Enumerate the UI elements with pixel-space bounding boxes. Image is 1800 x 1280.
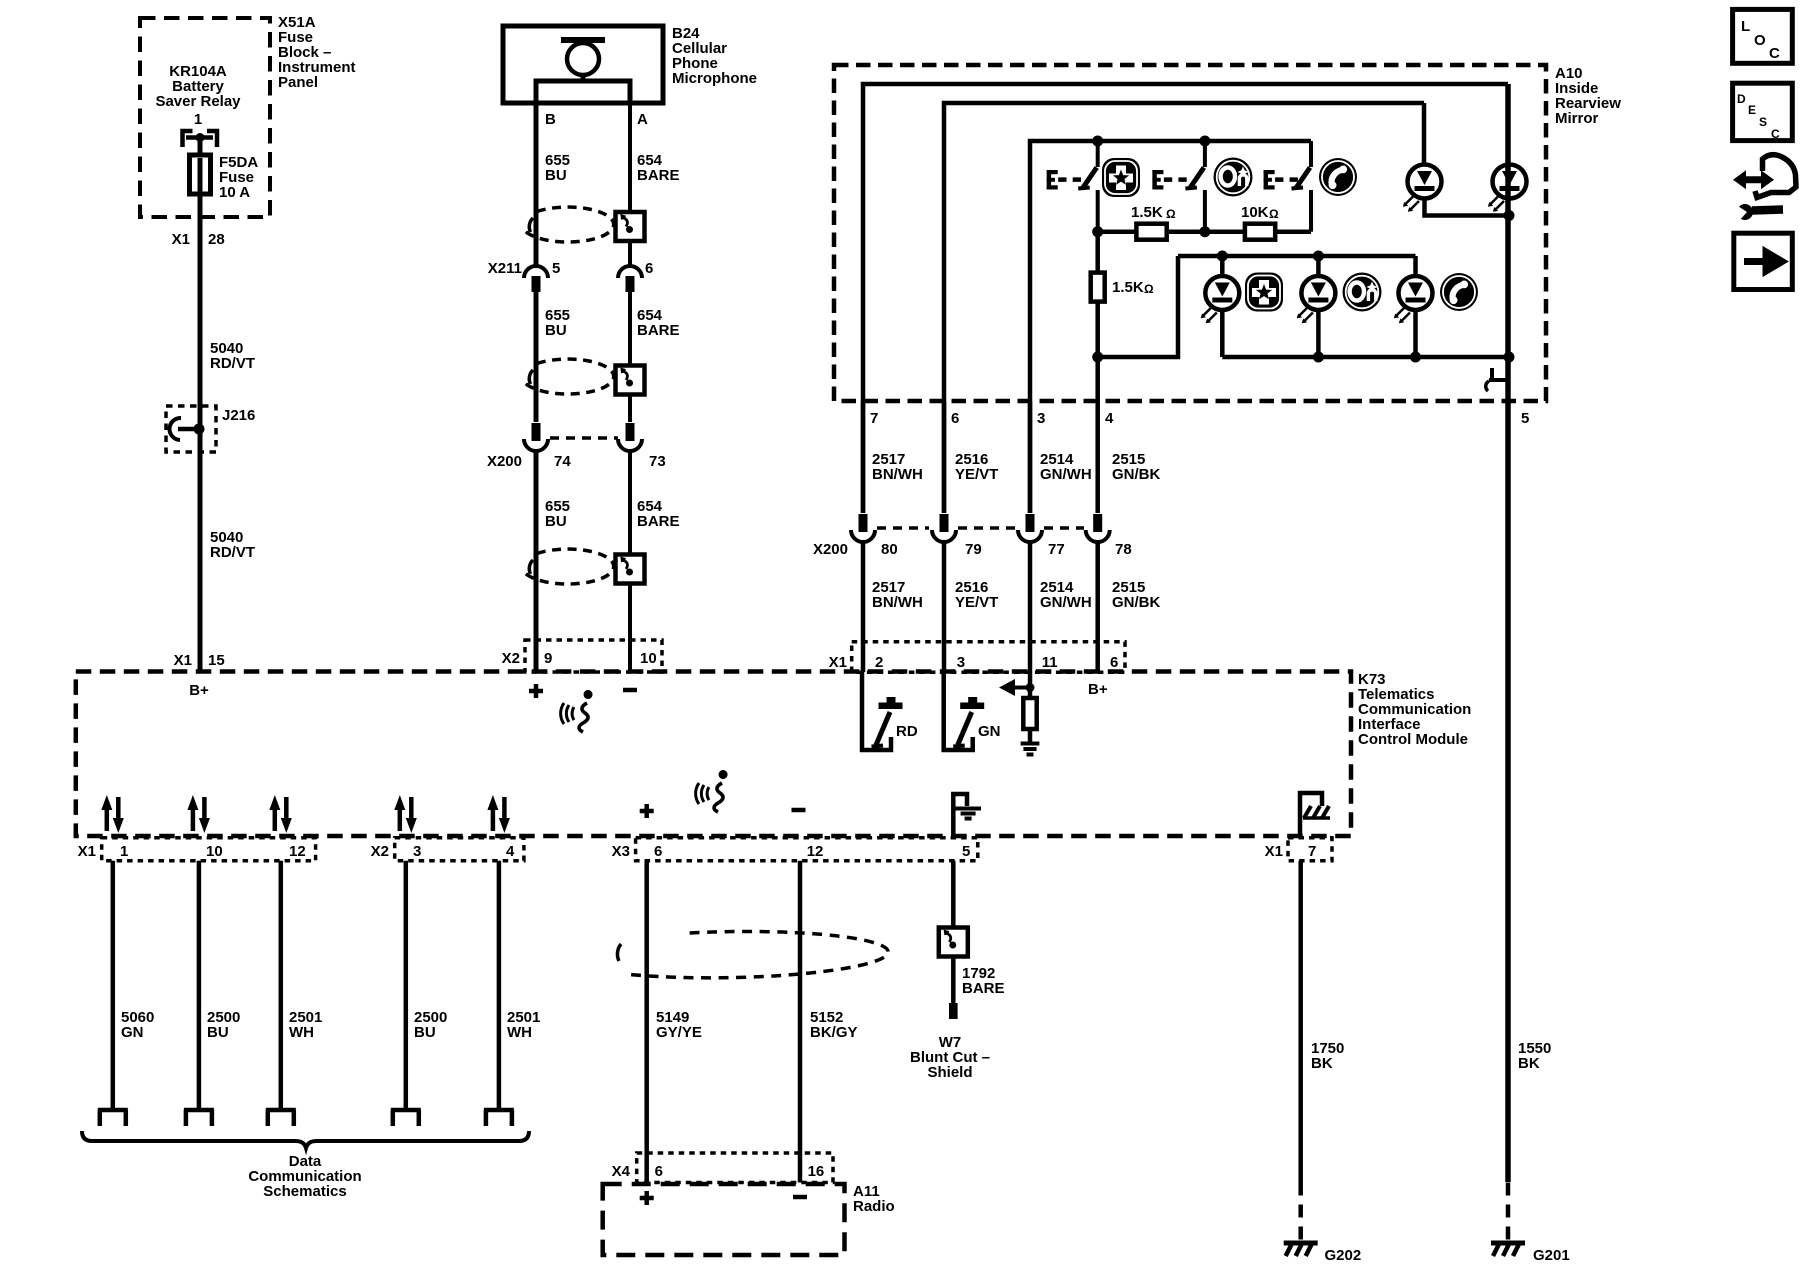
microphone element symbol — [561, 37, 605, 43]
node switch rail junction 1 — [1092, 136, 1103, 147]
node resistor rail junction 2 — [1199, 226, 1210, 237]
svg-text:1: 1 — [194, 111, 202, 128]
switch S1 blade — [1078, 141, 1098, 232]
data arrows pin 12 — [269, 795, 292, 833]
svg-text:10K: 10K — [1241, 204, 1269, 221]
nav icon DESC box — [1733, 83, 1793, 140]
node cathode rail junction 1 — [1313, 352, 1324, 363]
svg-text:YE/VT: YE/VT — [955, 466, 998, 483]
wire 654 BARE seg1 — [628, 103, 632, 266]
svg-text:X1: X1 — [78, 843, 96, 860]
twisted shield ellipse large — [630, 929, 889, 979]
svg-text:Saver Relay: Saver Relay — [155, 93, 241, 110]
ground hook pin 5 — [953, 794, 967, 836]
twisted pair ellipse 3 — [525, 549, 614, 584]
LED mirror upper left — [1403, 165, 1442, 212]
wire LED1 drop — [1220, 256, 1225, 276]
svg-text:G201: G201 — [1533, 1247, 1570, 1264]
switch S2 blade — [1185, 141, 1205, 232]
polarity + speaker — [640, 804, 654, 818]
svg-text:GY/YE: GY/YE — [656, 1024, 702, 1041]
relay KR104A contact — [183, 131, 218, 147]
svg-text:Panel: Panel — [278, 74, 318, 91]
svg-text:16: 16 — [808, 1163, 825, 1180]
svg-text:10: 10 — [206, 843, 223, 860]
svg-text:GN/WH: GN/WH — [1040, 594, 1092, 611]
microphone pictograph K73 X3 — [696, 770, 728, 812]
svg-text:G202: G202 — [1325, 1247, 1362, 1264]
shield termination square 3 — [616, 555, 645, 584]
svg-text:BN/WH: BN/WH — [872, 466, 923, 483]
wire fuse to X1 28 — [198, 192, 203, 671]
svg-text:80: 80 — [881, 541, 898, 558]
svg-text:RD/VT: RD/VT — [210, 355, 255, 372]
svg-text:28: 28 — [208, 231, 225, 248]
wire pin 7 riser and top rail — [863, 84, 1508, 513]
svg-text:2: 2 — [875, 654, 883, 671]
icon OnStar button — [1214, 158, 1253, 197]
svg-text:6: 6 — [951, 410, 959, 427]
connector X200 pin 73 — [618, 423, 642, 451]
indicator lamp GN — [944, 672, 985, 750]
svg-text:X2: X2 — [502, 650, 520, 667]
wire relay to fuse — [198, 140, 203, 156]
terminal pin 12 wire — [266, 1110, 296, 1126]
wire 2500 BU — [197, 861, 202, 1110]
svg-text:A: A — [637, 111, 648, 128]
connector X2 box on K73 — [525, 640, 662, 672]
wire 1750 BK — [1298, 861, 1303, 1183]
connector X200 dashed bridges — [877, 526, 1084, 530]
wire 2517 BN/WH seg1 — [861, 401, 866, 513]
connector X1 box pin 7 — [1288, 838, 1332, 861]
svg-text:B: B — [545, 111, 556, 128]
nav icon LOC box — [1733, 9, 1793, 63]
svg-text:WH: WH — [507, 1024, 532, 1041]
terminal pin 3 wire — [391, 1110, 421, 1126]
node LED rail junction 1 — [1217, 251, 1228, 262]
svg-text:B+: B+ — [189, 682, 209, 699]
svg-text:O: O — [1754, 32, 1766, 49]
svg-text:5: 5 — [962, 843, 970, 860]
resistor 10K horizontal — [1245, 224, 1275, 240]
icon phone lamp — [1440, 273, 1478, 311]
wire pin 3 riser and switch rail — [1030, 141, 1311, 513]
splice J216 box — [166, 406, 216, 452]
icon OnStar lamp — [1343, 273, 1382, 312]
svg-text:Schematics: Schematics — [263, 1183, 346, 1200]
wire 655 BU seg1 — [534, 103, 539, 265]
switch S3 blade — [1292, 141, 1312, 232]
svg-text:WH: WH — [289, 1024, 314, 1041]
mirror case ground clip — [1486, 368, 1509, 391]
svg-text:BU: BU — [207, 1024, 229, 1041]
svg-text:1.5K: 1.5K — [1112, 279, 1144, 296]
svg-text:10 A: 10 A — [219, 184, 250, 201]
radio A11 dashed box — [603, 1184, 845, 1255]
shield termination square 1 — [616, 212, 645, 241]
svg-text:73: 73 — [649, 453, 666, 470]
svg-text:D: D — [1737, 92, 1746, 106]
svg-text:E: E — [1748, 103, 1756, 117]
svg-text:Ω: Ω — [1144, 282, 1154, 296]
wire 2500 BU second — [404, 861, 409, 1110]
connector X200 pin 77 — [1018, 514, 1042, 542]
connector X1 box on K73 bottom — [102, 838, 316, 861]
resistor rail — [1098, 229, 1311, 234]
wire pin 5 main vertical — [1505, 84, 1511, 1182]
polarity - — [623, 688, 637, 693]
svg-text:7: 7 — [1308, 843, 1316, 860]
wire pin 6 riser and second rail — [944, 103, 1424, 513]
wire LED2 to cathode rail — [1316, 310, 1321, 357]
connector X3 box on K73 bottom — [636, 838, 978, 861]
wire LED3 drop — [1413, 256, 1418, 276]
wire 654 BARE seg2 — [628, 292, 632, 422]
svg-text:B+: B+ — [1088, 681, 1108, 698]
svg-text:C: C — [1771, 127, 1780, 141]
resistor 1.5K horizontal — [1136, 224, 1166, 240]
wire 2515 GN/BK seg1 — [1095, 401, 1100, 513]
svg-text:BU: BU — [545, 322, 567, 339]
svg-text:3: 3 — [413, 843, 421, 860]
svg-text:X1: X1 — [1265, 843, 1283, 860]
polarity + — [529, 684, 543, 698]
svg-text:6: 6 — [645, 260, 653, 277]
svg-text:3: 3 — [957, 654, 965, 671]
connector X200 pin 79 — [932, 514, 956, 542]
svg-text:GN/WH: GN/WH — [1040, 466, 1092, 483]
wire resistor to ground — [1028, 729, 1033, 742]
svg-text:BARE: BARE — [637, 513, 680, 530]
connector X4 box — [637, 1153, 833, 1183]
node switch rail junction 2 — [1199, 136, 1210, 147]
LED mirror upper right — [1488, 165, 1527, 212]
polarity + radio — [640, 1191, 654, 1205]
svg-text:7: 7 — [870, 410, 878, 427]
wire upper LED left drop — [1422, 103, 1427, 165]
nav icon hand with arrows and wrench — [1741, 176, 1765, 183]
svg-text:X4: X4 — [612, 1163, 631, 1180]
connector X2 box on K73 bottom — [395, 838, 524, 861]
wire 1792 shield drop — [951, 861, 956, 1003]
wire 2501 WH — [279, 861, 284, 1110]
fuse block X51A dashed box — [140, 18, 270, 217]
svg-text:10: 10 — [640, 650, 657, 667]
svg-text:4: 4 — [506, 843, 515, 860]
wire 2515 GN/BK seg2 — [1095, 543, 1100, 672]
icon emergency cross button — [1102, 158, 1140, 197]
svg-text:5: 5 — [552, 260, 560, 277]
ground G201 — [1491, 1243, 1525, 1256]
data arrows pin 1 — [101, 795, 124, 833]
svg-text:6: 6 — [654, 843, 662, 860]
icon phone button — [1319, 158, 1357, 196]
connector X1 box on K73 top — [852, 642, 1125, 673]
internal chassis clip pin 7 — [1300, 793, 1322, 836]
LED indicator 1 — [1201, 276, 1240, 323]
shield termination square 2 — [616, 366, 645, 395]
terminal pin 10 wire — [184, 1110, 214, 1126]
terminal pin 4 wire — [484, 1110, 514, 1126]
svg-text:Shield: Shield — [927, 1064, 972, 1081]
svg-text:X211: X211 — [488, 260, 522, 277]
twisted pair ellipse 1 — [525, 207, 614, 242]
svg-text:S: S — [1759, 115, 1767, 129]
svg-text:X1: X1 — [172, 231, 190, 248]
svg-text:4: 4 — [1105, 410, 1114, 427]
svg-text:78: 78 — [1115, 541, 1132, 558]
resistor 1.5K vertical — [1091, 273, 1105, 302]
svg-text:Radio: Radio — [853, 1198, 895, 1215]
wire LED2 drop — [1316, 256, 1321, 276]
ground G202 — [1284, 1243, 1318, 1256]
svg-text:1: 1 — [120, 843, 128, 860]
wire 2514 GN/WH seg2 — [1028, 543, 1033, 698]
svg-text:6: 6 — [655, 1163, 663, 1180]
svg-text:YE/VT: YE/VT — [955, 594, 998, 611]
connector X211 pin 5 — [524, 266, 548, 292]
wire LED1 to cathode rail — [1220, 310, 1225, 357]
svg-text:RD/VT: RD/VT — [210, 544, 255, 561]
svg-text:BK: BK — [1518, 1055, 1540, 1072]
svg-text:Mirror: Mirror — [1555, 110, 1599, 127]
svg-text:GN: GN — [978, 723, 1001, 740]
LED indicator 2 — [1297, 276, 1336, 323]
svg-text:X1: X1 — [174, 652, 192, 669]
splice clip J216 — [169, 418, 181, 440]
nav icon next arrow box — [1734, 233, 1793, 289]
svg-text:L: L — [1741, 18, 1750, 35]
connector X200 pin 80 — [851, 514, 875, 542]
node cathode rail to pin5 wire — [1504, 352, 1515, 363]
data arrows pin 10 — [187, 795, 210, 833]
svg-text:RD: RD — [896, 723, 918, 740]
svg-text:X1: X1 — [829, 654, 847, 671]
icon emergency cross lamp — [1245, 273, 1283, 312]
svg-text:GN/BK: GN/BK — [1112, 594, 1161, 611]
terminal pin 1 wire — [98, 1110, 128, 1126]
svg-text:9: 9 — [544, 650, 552, 667]
svg-text:GN/BK: GN/BK — [1112, 466, 1161, 483]
wire 5149 GY/YE — [644, 861, 649, 1183]
microphone pictograph K73 X2 — [561, 690, 593, 732]
polarity - speaker — [792, 808, 806, 813]
svg-text:X200: X200 — [487, 453, 522, 470]
LED cathode rail — [1222, 355, 1509, 360]
switch S2 actuator E — [1152, 170, 1163, 190]
svg-text:BU: BU — [545, 167, 567, 184]
svg-text:X2: X2 — [371, 843, 389, 860]
svg-text:6: 6 — [1110, 654, 1118, 671]
data arrows pin 4 — [487, 795, 510, 833]
LED indicator 3 — [1394, 276, 1433, 323]
ground earth symbol — [1021, 742, 1040, 746]
arrow internal feed — [1012, 686, 1030, 690]
svg-text:12: 12 — [807, 843, 824, 860]
shield termination square W7 — [939, 928, 968, 957]
node pin4 junction — [1092, 352, 1103, 363]
wire 1750 dashed tail — [1298, 1183, 1303, 1242]
svg-text:1.5K: 1.5K — [1131, 204, 1163, 221]
svg-text:Microphone: Microphone — [672, 70, 757, 87]
svg-text:Ω: Ω — [1166, 207, 1176, 221]
svg-text:3: 3 — [1037, 410, 1045, 427]
svg-text:BU: BU — [545, 513, 567, 530]
svg-text:5: 5 — [1521, 410, 1529, 427]
connector X211 pin 6 — [618, 266, 642, 292]
svg-text:BARE: BARE — [637, 167, 680, 184]
wire 2516 YE/VT seg1 — [942, 401, 947, 513]
node cathode rail junction 2 — [1410, 352, 1421, 363]
svg-text:J216: J216 — [222, 407, 255, 424]
svg-text:BARE: BARE — [637, 322, 680, 339]
svg-text:15: 15 — [208, 652, 225, 669]
module K73 dashed box — [76, 672, 1351, 837]
wire pin4 node to LED feed riser — [1098, 256, 1178, 357]
mirror A10 dashed box — [834, 65, 1546, 401]
switch S1 actuator E — [1047, 170, 1058, 190]
svg-text:74: 74 — [554, 453, 571, 470]
wire 2516 YE/VT seg2 — [942, 543, 947, 672]
connector X200 pin 74 — [524, 423, 548, 451]
resistor internal — [1023, 698, 1036, 729]
svg-text:11: 11 — [1042, 654, 1058, 671]
indicator lamp RD — [862, 672, 903, 750]
svg-text:BK/GY: BK/GY — [810, 1024, 858, 1041]
svg-text:BN/WH: BN/WH — [872, 594, 923, 611]
twisted pair ellipse 2 — [525, 359, 614, 394]
wire upper LED left to junction — [1425, 198, 1510, 216]
node B+ feed junction — [1026, 683, 1035, 692]
svg-text:BK: BK — [1311, 1055, 1333, 1072]
svg-text:BARE: BARE — [962, 980, 1005, 997]
brace data schematics — [82, 1131, 529, 1148]
svg-text:C: C — [1769, 45, 1780, 62]
data arrows pin 3 — [394, 795, 417, 833]
wire 655 BU seg3 — [534, 452, 539, 672]
LED anode rail — [1178, 254, 1416, 259]
wire 2514 GN/WH seg1 — [1028, 401, 1033, 513]
node resistor rail junction 1 — [1092, 226, 1103, 237]
wire resistor to pin4 node — [1095, 301, 1100, 401]
wire 655 BU seg2 — [534, 292, 539, 422]
svg-text:Ω: Ω — [1269, 207, 1279, 221]
svg-text:Control Module: Control Module — [1358, 731, 1468, 748]
svg-text:12: 12 — [289, 843, 306, 860]
wire 2517 BN/WH seg2 — [861, 543, 866, 672]
svg-text:X3: X3 — [612, 843, 630, 860]
svg-text:79: 79 — [965, 541, 982, 558]
switch S3 actuator E — [1264, 170, 1275, 190]
wire LED3 to cathode rail — [1413, 310, 1418, 357]
polarity - radio — [793, 1195, 807, 1200]
microphone B24 box — [503, 26, 663, 103]
shield blunt cut stub — [949, 1003, 958, 1019]
wire 1550 dashed tail — [1506, 1183, 1511, 1242]
wire 2501 WH second — [497, 861, 502, 1110]
svg-text:77: 77 — [1048, 541, 1065, 558]
wire 5152 BK/GY — [798, 861, 803, 1183]
connector X200 pin 78 — [1086, 514, 1110, 542]
wire switch rail to vertical resistor — [1095, 232, 1100, 273]
connector X200 dashed bridge — [550, 436, 618, 440]
svg-text:GN: GN — [121, 1024, 144, 1041]
wire 5060 GN — [111, 861, 116, 1110]
fuse F5DA — [190, 155, 211, 194]
node upper LED junction — [1504, 210, 1515, 221]
wire 654 BARE seg3 — [628, 452, 632, 672]
node LED rail junction 2 — [1313, 251, 1324, 262]
svg-text:BU: BU — [414, 1024, 436, 1041]
svg-text:X200: X200 — [813, 541, 848, 558]
